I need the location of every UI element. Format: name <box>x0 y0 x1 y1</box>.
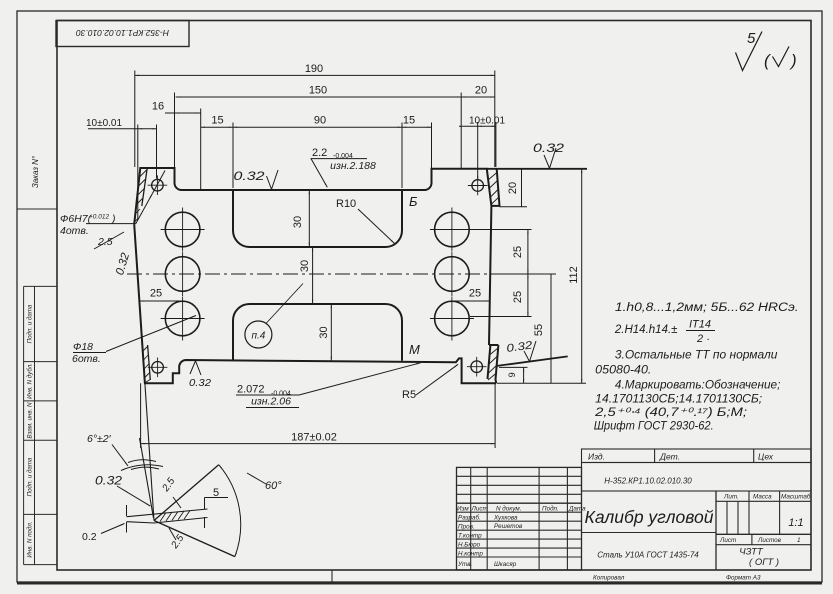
svg-text:( ОГТ ): ( ОГТ ) <box>749 557 779 568</box>
svg-text:Лист: Лист <box>471 506 488 513</box>
detail dim 5 <box>205 498 229 529</box>
surface finish 0.32 bottom step <box>189 361 211 389</box>
doc number box <box>582 463 812 492</box>
svg-text:5: 5 <box>747 30 756 47</box>
svg-text:0.32: 0.32 <box>234 169 265 183</box>
svg-text:Дет.: Дет. <box>659 452 680 462</box>
svg-text:0.32: 0.32 <box>189 377 211 389</box>
svg-text:Подп. и дата: Подп. и дата <box>27 457 34 496</box>
leader 2.072 <box>236 363 421 408</box>
svg-text:30: 30 <box>292 216 304 228</box>
svg-text:Утв.: Утв. <box>457 561 472 568</box>
svg-text:15: 15 <box>211 115 223 127</box>
svg-text:п.4: п.4 <box>251 331 265 342</box>
svg-text:.: . <box>707 331 710 343</box>
pin hole bottom-right <box>467 357 487 377</box>
svg-text:2: 2 <box>696 333 703 345</box>
dim 25 lower right <box>527 274 529 317</box>
svg-text:4отв.: 4отв. <box>60 225 89 237</box>
dim 30 bottom <box>330 304 332 361</box>
bottom-right corner band <box>488 345 499 383</box>
svg-text:9: 9 <box>507 372 517 377</box>
p4 hole <box>245 284 303 349</box>
svg-text:150: 150 <box>309 85 327 97</box>
leader F18 <box>73 316 196 353</box>
izd/det/tseh header row <box>582 449 812 463</box>
hole bottom-left <box>161 297 205 341</box>
svg-text:0.32: 0.32 <box>533 141 564 155</box>
svg-text:Лит.: Лит. <box>723 494 739 501</box>
svg-text:25: 25 <box>150 288 162 300</box>
label F18 <box>72 341 101 365</box>
svg-text:187±0.02: 187±0.02 <box>291 432 337 444</box>
hole top-right <box>430 208 474 252</box>
hole mid-right <box>435 252 470 296</box>
svg-text:Шкасяр: Шкасяр <box>494 561 517 568</box>
svg-text:60°: 60° <box>265 480 282 492</box>
dim 9 <box>523 367 525 383</box>
svg-text:Лист: Лист <box>719 537 736 544</box>
top slot <box>233 190 402 247</box>
svg-text:16: 16 <box>152 101 164 113</box>
detail wedge lower edge <box>154 521 235 557</box>
leader 0.32 wedge <box>117 486 150 506</box>
svg-text:30: 30 <box>318 326 330 338</box>
detail gauge band <box>127 509 208 523</box>
dim 25 right <box>452 300 490 302</box>
svg-text:1.h0,8...1,2мм; 5Б...62 НRСэ.: 1.h0,8...1,2мм; 5Б...62 НRСэ. <box>615 302 799 314</box>
kopiroval tick <box>331 570 333 582</box>
pin hole top-left <box>148 175 168 195</box>
svg-text:Формат А3: Формат А3 <box>726 575 761 582</box>
dim 15 right <box>402 126 432 128</box>
dim 30 top <box>308 190 310 247</box>
svg-text:Изм: Изм <box>457 506 469 513</box>
svg-text:Разраб.: Разраб. <box>458 514 481 522</box>
svg-text:R10: R10 <box>336 198 356 210</box>
svg-text:20: 20 <box>507 182 519 194</box>
hatching top-left corner <box>135 170 147 222</box>
svg-text:+0.012: +0.012 <box>89 214 109 221</box>
svg-text:Н.Бюро: Н.Бюро <box>458 542 481 549</box>
svg-text:N докум.: N докум. <box>496 505 521 513</box>
svg-text:Ф18: Ф18 <box>73 341 93 353</box>
surface finish 0.32 top right <box>533 141 564 168</box>
svg-text:Н-352.КР1.10.02.010.30: Н-352.КР1.10.02.010.30 <box>76 28 169 38</box>
svg-text:190: 190 <box>305 63 323 75</box>
extension lines top <box>135 71 496 221</box>
svg-text:6°±2′: 6°±2′ <box>87 433 112 445</box>
svg-text:Копировал: Копировал <box>593 575 625 582</box>
bottom measuring plane slant <box>497 356 568 366</box>
svg-text:0.2: 0.2 <box>82 531 97 543</box>
margin column boxes <box>24 286 57 564</box>
svg-text:Заказ N°: Заказ N° <box>31 155 40 188</box>
top-left corner inner slant <box>142 168 147 206</box>
dim 112 <box>581 169 583 383</box>
hatching top-right corner <box>488 172 499 205</box>
DIM-TEXTS <box>86 63 580 444</box>
tech requirements <box>594 302 799 433</box>
bottom slot <box>233 304 402 361</box>
stamp box (rotated doc number) <box>56 21 189 47</box>
svg-text:изн.2.188: изн.2.188 <box>330 160 376 172</box>
roughness mark top right <box>736 30 797 71</box>
svg-text:2,5⁺⁰⋅⁴ (40,7⁺⁰․¹⁷) Б;М;: 2,5⁺⁰⋅⁴ (40,7⁺⁰․¹⁷) Б;М; <box>594 407 747 419</box>
surface finish 0.32 bottom right plane <box>506 339 536 361</box>
dim 10 right <box>459 125 496 127</box>
svg-text:Н-352.КР1.10.02.010.30: Н-352.КР1.10.02.010.30 <box>604 477 692 486</box>
right side extension lines <box>470 207 586 384</box>
margin column labels <box>27 304 34 558</box>
svg-text:05080-40.: 05080-40. <box>595 365 651 377</box>
dim 20 top <box>461 96 495 98</box>
svg-text:-0.004: -0.004 <box>333 153 353 160</box>
svg-text:Дата: Дата <box>568 506 586 513</box>
lit/massa/masshtab box <box>716 491 811 570</box>
svg-text:10±0.01: 10±0.01 <box>86 118 123 129</box>
svg-text:изн.2.06: изн.2.06 <box>251 396 291 408</box>
TITLEBLOCK-LAYER <box>332 449 811 582</box>
dim 16 <box>165 112 201 114</box>
PART-LAYER <box>134 168 587 383</box>
detail wedge upper edge <box>154 465 219 521</box>
svg-text:Калибр угловой: Калибр угловой <box>585 507 714 527</box>
svg-text:М: М <box>409 342 420 357</box>
6deg tick arcs <box>128 460 159 470</box>
dim 25 left <box>140 300 183 302</box>
svg-text:Хухкова: Хухкова <box>493 515 518 522</box>
leader R10 <box>358 209 395 244</box>
svg-text:25: 25 <box>512 291 524 303</box>
svg-text:14.1701130СБ;14.1701130СБ;: 14.1701130СБ;14.1701130СБ; <box>595 393 762 405</box>
svg-text:Цех: Цех <box>758 452 774 462</box>
svg-text:20: 20 <box>475 85 487 97</box>
svg-text:Б: Б <box>409 194 418 209</box>
svg-text:Масштаб: Масштаб <box>781 493 811 501</box>
dim 90 <box>233 126 402 128</box>
dim 10 left <box>88 128 157 130</box>
center line <box>127 273 526 275</box>
svg-text:2.Н14.h14.±: 2.Н14.h14.± <box>614 324 678 336</box>
svg-text:ЧЗТТ: ЧЗТТ <box>739 547 764 558</box>
svg-text:6отв.: 6отв. <box>72 353 101 365</box>
main title box divider <box>582 532 717 534</box>
svg-text:Инв. N дубл.: Инв. N дубл. <box>27 363 34 399</box>
svg-text:1:1: 1:1 <box>788 517 803 529</box>
svg-text:R5: R5 <box>402 389 416 401</box>
dim 55 <box>550 274 552 383</box>
svg-text:1: 1 <box>797 537 801 544</box>
hatching bottom-right corner <box>488 348 498 380</box>
dim 15 left <box>201 126 233 128</box>
dim 190 <box>135 74 495 76</box>
surface finish 0.32 top mid <box>234 169 279 189</box>
svg-text:5: 5 <box>213 487 219 499</box>
bottom-left corner inner slant <box>148 345 151 380</box>
detail dim 0.2 <box>101 505 127 534</box>
svg-text:55: 55 <box>533 324 545 336</box>
svg-text:Подп.: Подп. <box>542 505 559 513</box>
pin hole bottom-left <box>148 358 168 378</box>
svg-text:Т.контр: Т.контр <box>458 533 482 540</box>
svg-text:25: 25 <box>512 246 524 258</box>
svg-text:Изд.: Изд. <box>588 452 605 462</box>
svg-text:Листов: Листов <box>757 537 782 544</box>
part outline bottom-right foot <box>134 224 496 383</box>
hole bottom-right <box>430 297 474 341</box>
svg-text:Пров.: Пров. <box>458 524 475 531</box>
detail 187 tail & 6deg <box>112 445 163 471</box>
leader F6 <box>86 171 165 250</box>
svg-text:30: 30 <box>299 260 311 272</box>
svg-text:Н.контр: Н.контр <box>458 551 483 558</box>
svg-text:Взам. инв. N: Взам. инв. N <box>27 402 34 439</box>
svg-text:Сталь У10А ГОСТ 1435-74: Сталь У10А ГОСТ 1435-74 <box>597 551 699 560</box>
hole row top-left <box>161 208 205 252</box>
dim 30 mid <box>312 247 314 304</box>
svg-text:90: 90 <box>314 115 326 127</box>
label F6H7 <box>60 213 116 248</box>
DIMS-LAYER <box>73 71 586 557</box>
detail 2.5 ticks <box>169 497 181 540</box>
svg-text:Инв. N подл.: Инв. N подл. <box>27 521 34 557</box>
hatching bottom-left corner <box>142 346 150 383</box>
svg-text:3.Остальные ТТ по нормали: 3.Остальные ТТ по нормали <box>615 349 778 361</box>
svg-text:Шрифт ГОСТ 2930-62.: Шрифт ГОСТ 2930-62. <box>594 421 714 433</box>
svg-text:Ф6Н7(: Ф6Н7( <box>60 213 93 225</box>
svg-text:2.2: 2.2 <box>312 147 327 159</box>
svg-text:IТ14: IТ14 <box>689 319 711 331</box>
hole mid-left <box>165 252 200 296</box>
detail band hatch <box>160 511 190 522</box>
leader 2.2 <box>311 159 367 188</box>
titleblock texts <box>588 452 774 486</box>
svg-text:15: 15 <box>403 115 415 127</box>
top measuring plane extension <box>487 168 587 170</box>
svg-text:Решетов: Решетов <box>494 523 523 530</box>
signature table <box>457 467 582 570</box>
second projection line to detail <box>140 438 154 518</box>
svg-text:25: 25 <box>469 288 481 300</box>
svg-text:0.32: 0.32 <box>95 476 123 488</box>
dim 187 <box>141 383 496 448</box>
svg-text:2.5: 2.5 <box>97 236 113 248</box>
svg-text:2.072: 2.072 <box>237 384 265 396</box>
dim 25 upper right <box>527 230 529 275</box>
pin hole top-right <box>468 176 488 196</box>
zakaz divider <box>17 208 57 210</box>
svg-text:): ) <box>789 51 797 70</box>
svg-text:112: 112 <box>568 266 580 284</box>
svg-text:10±0.01: 10±0.01 <box>469 115 506 126</box>
detail 60 arc <box>219 465 266 557</box>
dim 20 right vertical <box>521 169 523 207</box>
svg-text:Масса: Масса <box>753 494 772 501</box>
dim 150 <box>176 96 462 98</box>
leader R5 <box>416 364 458 395</box>
svg-text:Подп. и дата: Подп. и дата <box>27 304 34 343</box>
svg-text:4.Маркировать:Обозначение;: 4.Маркировать:Обозначение; <box>615 380 781 392</box>
part outline <box>134 168 491 345</box>
top-right corner band outer slant <box>491 169 499 206</box>
left edge extension to detail <box>145 383 154 520</box>
